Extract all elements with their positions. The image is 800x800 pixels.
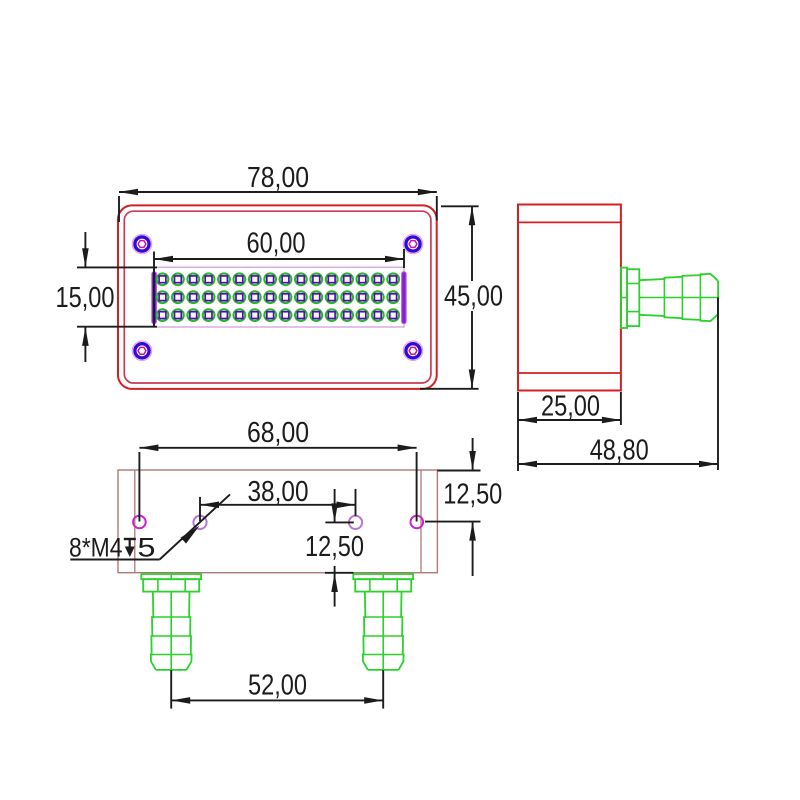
screw hole bottom-right — [403, 341, 422, 360]
dimension 12,50 right line lower — [469, 522, 476, 576]
tapped hole 3 — [349, 516, 362, 529]
svg-text:15,00: 15,00 — [56, 282, 115, 314]
dimension 78,00 line — [119, 189, 437, 196]
dimension 15,00 text — [56, 282, 115, 314]
svg-text:12,50: 12,50 — [443, 479, 502, 511]
dimension 78,00 text — [247, 162, 309, 194]
bottom view body outline — [118, 470, 437, 573]
side view top face line — [518, 221, 621, 223]
bottom view right wall line — [420, 470, 422, 573]
front view body outer outline — [118, 205, 437, 389]
dimension 52,00 extension lines — [171, 670, 383, 709]
dimension 15,00 extension lines — [77, 267, 157, 326]
dimension 48,80 line — [518, 461, 718, 468]
dimension 45,00 line lower — [469, 311, 476, 389]
dimension 12,50 middle line lower — [331, 566, 338, 607]
side view bottom face line — [518, 372, 621, 374]
LED window right end cap — [402, 272, 406, 324]
screw hole bottom-left — [132, 341, 151, 360]
dimension 25,00 text — [541, 390, 600, 422]
LED window border — [154, 267, 404, 327]
dimension 45,00 text — [444, 280, 503, 312]
LED window left end cap — [152, 272, 156, 324]
bottom view left wall line — [134, 470, 136, 573]
dimension 48,80 text — [590, 434, 649, 466]
dimension 25,00 line — [518, 417, 621, 424]
svg-text:38,00: 38,00 — [248, 476, 309, 508]
front view body inner outline — [124, 211, 431, 383]
dimension 68,00 line — [139, 445, 416, 452]
leader line for 8*M4 label — [70, 494, 230, 559]
label 8*M4 depth 5 — [69, 533, 156, 563]
dimension 52,00 line — [171, 697, 383, 704]
dimension 48,80 extension line at barb tip — [717, 298, 719, 471]
tapped hole 1 — [133, 516, 146, 529]
svg-text:60,00: 60,00 — [247, 227, 306, 259]
bottom view right hose barb fitting — [353, 574, 413, 671]
svg-text:68,00: 68,00 — [247, 417, 309, 449]
svg-text:78,00: 78,00 — [247, 162, 309, 194]
tapped hole 2 — [193, 516, 206, 529]
svg-text:25,00: 25,00 — [541, 390, 600, 422]
dimension 45,00 extension lines — [420, 206, 479, 388]
dimension 15,00 line upper — [82, 232, 89, 267]
side view body outline — [518, 205, 621, 391]
LED emitter array 16x3 — [157, 273, 399, 321]
dimension 12,50 middle text — [305, 531, 364, 563]
tapped hole 4 — [411, 516, 424, 529]
dimension 12,50 right extension lines — [425, 471, 481, 522]
svg-text:52,00: 52,00 — [248, 669, 307, 701]
dimension 78,00 extension lines — [119, 196, 437, 222]
dimension 38,00 text — [248, 476, 309, 508]
svg-text:48,80: 48,80 — [590, 434, 649, 466]
dimension 12,50 right line upper — [469, 438, 476, 470]
side view hose barb fitting — [621, 268, 718, 328]
screw hole top-right — [403, 234, 422, 253]
bottom view left hose barb fitting — [141, 574, 201, 671]
dimension 60,00 text — [247, 227, 306, 259]
dimension 12,50 right text — [443, 479, 502, 511]
dimension 15,00 line lower — [82, 327, 89, 362]
dimension 45,00 line upper — [469, 206, 476, 281]
svg-text:12,50: 12,50 — [305, 531, 364, 563]
dimension 12,50 middle extension lines — [325, 522, 354, 572]
screw hole top-left — [132, 234, 151, 253]
dimension 25,00 extension lines — [518, 392, 621, 471]
svg-text:45,00: 45,00 — [444, 280, 503, 312]
svg-text:5: 5 — [138, 533, 156, 563]
dimension 60,00 extension lines — [154, 249, 404, 327]
dimension 52,00 text — [248, 669, 307, 701]
dimension 12,50 middle line upper — [331, 489, 338, 522]
svg-text:8*M4: 8*M4 — [69, 533, 123, 563]
dimension 68,00 extension lines — [139, 452, 416, 522]
dimension 60,00 line — [154, 256, 404, 263]
dimension 38,00 extension lines — [200, 489, 356, 521]
dimension 38,00 line — [200, 502, 356, 509]
dimension 68,00 text — [247, 417, 309, 449]
